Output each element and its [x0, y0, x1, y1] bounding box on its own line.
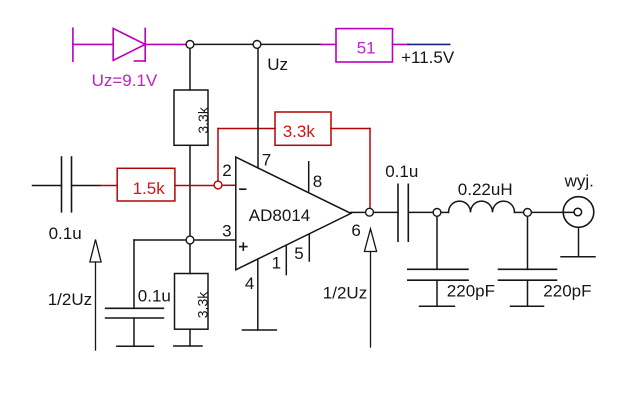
- svg-text:0.1u: 0.1u: [385, 162, 418, 181]
- plus symbol (pin3): [240, 246, 247, 248]
- svg-text:220pF: 220pF: [447, 282, 495, 301]
- node D (inverting input, pin 2): [214, 181, 222, 189]
- svg-text:8: 8: [313, 172, 322, 191]
- resistor R1 1.5k: [117, 168, 175, 201]
- pin 8 stub: [308, 162, 310, 191]
- ground (C2): [117, 345, 154, 347]
- svg-text:wyj.: wyj.: [564, 171, 594, 190]
- node E (pin 6 output): [366, 208, 374, 216]
- wire op-amp output to node E: [351, 211, 365, 213]
- op-amp U1 AD8014: [236, 157, 351, 270]
- pin 1 stub: [285, 245, 287, 274]
- svg-text:1/2Uz: 1/2Uz: [323, 283, 367, 302]
- svg-text:51: 51: [357, 39, 376, 58]
- wire node B to R51: [262, 43, 322, 45]
- wire node D to op-amp pin 2: [223, 184, 236, 186]
- input wire: [33, 185, 62, 187]
- wire node C down to R4: [189, 245, 191, 274]
- svg-text:5: 5: [294, 244, 303, 263]
- svg-text:2: 2: [222, 161, 231, 180]
- svg-text:Uz=9.1V: Uz=9.1V: [92, 71, 158, 90]
- wire node F to L1: [442, 211, 449, 213]
- svg-text:4: 4: [245, 274, 254, 293]
- node A (zener / divider junction): [186, 41, 194, 49]
- pin 4 stub: [257, 259, 259, 330]
- ground (J1): [561, 256, 595, 258]
- capacitor C3 0.1u (output coupling): [398, 184, 408, 241]
- resistor R2 3.3k (upper divider): [174, 90, 208, 145]
- resistor R51 51: [336, 29, 393, 62]
- svg-text:3.3k: 3.3k: [195, 106, 211, 133]
- node G (filter output): [524, 209, 532, 217]
- svg-text:1/2Uz: 1/2Uz: [48, 290, 92, 309]
- resistor R3 3.3k (feedback): [275, 112, 331, 145]
- minus symbol (pin2): [240, 188, 246, 190]
- wire R3 to output node: [331, 128, 370, 130]
- wire C5 to ground: [527, 280, 529, 306]
- wire C1 to R1: [72, 185, 101, 187]
- arrow 1/2Uz (right): [364, 229, 376, 347]
- wire R1 to node D (pin2): [175, 185, 214, 187]
- svg-text:0.1u: 0.1u: [138, 286, 171, 305]
- inductor L1 0.22uH: [449, 201, 515, 212]
- ground (R4): [174, 345, 202, 347]
- wire C4 to ground: [436, 280, 438, 306]
- svg-text:Uz: Uz: [267, 55, 288, 74]
- wire feedback: node D up and across to R3: [217, 129, 219, 182]
- arrow 1/2Uz (left): [90, 240, 101, 351]
- wire node A down to R2: [189, 49, 191, 90]
- capacitor C4 220pF: [408, 269, 468, 280]
- svg-text:220pF: 220pF: [543, 282, 591, 301]
- wire node G down to C5: [527, 217, 529, 269]
- node F (filter input): [433, 209, 441, 217]
- svg-text:3: 3: [222, 222, 231, 241]
- ground (C5): [511, 305, 544, 307]
- pin 7 stub: [257, 49, 259, 168]
- wire R4 to ground: [189, 329, 191, 346]
- zener diode D1 Uz=9.1V: [73, 28, 185, 61]
- node C (pin 3 bias node): [186, 236, 194, 244]
- svg-text:0.1u: 0.1u: [49, 224, 82, 243]
- pin 5 stub: [308, 234, 310, 261]
- wire node A to node B: [195, 43, 253, 45]
- wire C2 to ground: [133, 318, 135, 346]
- capacitor C5 220pF: [499, 269, 557, 280]
- svg-text:6: 6: [351, 221, 360, 240]
- svg-text:1.5k: 1.5k: [133, 179, 166, 198]
- svg-text:1: 1: [272, 254, 281, 273]
- svg-text:AD8014: AD8014: [249, 206, 310, 225]
- connector J1 wyj.: [563, 197, 594, 228]
- wire +11.5V supply stub (navy): [408, 43, 450, 45]
- ground (pin 4): [243, 329, 277, 331]
- ground (C4): [420, 305, 455, 307]
- capacitor C1 0.1u (input): [62, 157, 72, 212]
- wire bias node to op-amp pin 3: [195, 239, 236, 241]
- wire node F down to C4: [436, 217, 438, 269]
- svg-text:3.3k: 3.3k: [283, 122, 316, 141]
- wire L1 to node G: [515, 211, 524, 213]
- wire node G to J1: [532, 211, 574, 213]
- wire J1 shell to ground: [578, 227, 580, 256]
- resistor R4 3.3k (lower divider): [175, 274, 209, 330]
- wire C3 to node F: [408, 211, 432, 213]
- wire node E to C3: [374, 211, 398, 213]
- wire bias node left to C2: [134, 239, 186, 241]
- node B (Uz rail / pin7 tap): [253, 41, 261, 49]
- capacitor C2 0.1u (bias decoupling): [106, 308, 164, 318]
- svg-text:7: 7: [262, 151, 271, 170]
- svg-text:0.22uH: 0.22uH: [458, 180, 513, 199]
- wire R51 to +11.5V: [393, 43, 409, 45]
- svg-text:+11.5V: +11.5V: [401, 48, 455, 67]
- svg-text:3.3k: 3.3k: [194, 291, 210, 318]
- wire R2 to node C: [189, 145, 191, 235]
